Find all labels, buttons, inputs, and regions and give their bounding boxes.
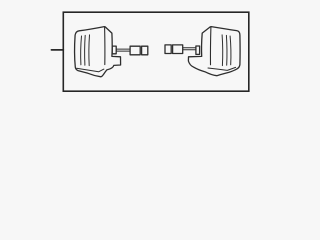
plug right segment A	[173, 45, 183, 54]
plug right segment B	[165, 45, 171, 54]
motor assembly right (mirrored)	[165, 27, 240, 76]
motor body right outline	[188, 27, 240, 76]
motor base line left	[77, 68, 104, 72]
motor crease line left	[104, 27, 106, 64]
rib lines right	[229, 36, 232, 65]
wire left	[116, 49, 130, 51]
motor body left outline	[75, 27, 121, 77]
connector tab left	[112, 46, 116, 54]
plug left segment B	[142, 46, 148, 55]
rib lines left	[80, 36, 83, 65]
leader line	[51, 49, 63, 51]
motor base line right	[208, 67, 236, 70]
wire right	[183, 48, 197, 50]
plug left segment A	[130, 46, 140, 55]
connector tab right	[196, 46, 200, 54]
frame border	[63, 12, 249, 91]
motor assembly left	[75, 27, 148, 77]
motor crease line right	[209, 27, 211, 65]
